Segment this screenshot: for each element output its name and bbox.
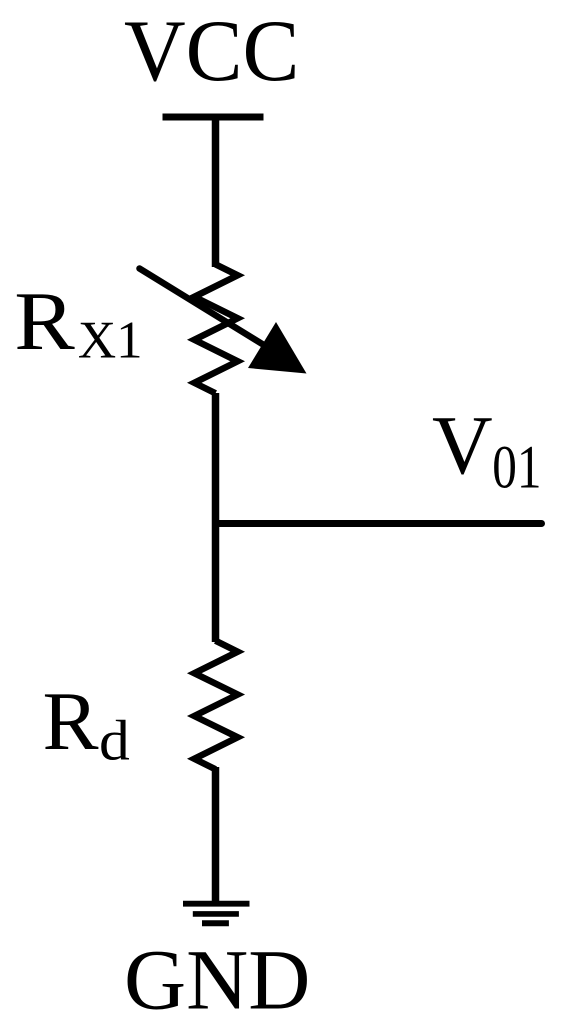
- label Rd: [43, 675, 130, 772]
- resistor Rd: [194, 641, 237, 770]
- wire: node to V01 output: [216, 520, 542, 527]
- label V01: [432, 399, 542, 501]
- wire: RX1 to node: [212, 393, 220, 524]
- power rail VCC: [163, 114, 264, 121]
- svg-text:R: R: [43, 675, 99, 768]
- svg-text:d: d: [99, 709, 130, 772]
- net label GND: [124, 932, 310, 1028]
- resistor RX1 (variable): [194, 264, 237, 393]
- wire: VCC rail to RX1: [212, 115, 220, 267]
- wire: node to Rd: [212, 524, 220, 643]
- label RX1: [14, 274, 142, 370]
- svg-text:R: R: [14, 274, 75, 367]
- svg-text:GND: GND: [124, 932, 310, 1028]
- svg-text:01: 01: [492, 433, 541, 500]
- ground: [183, 904, 250, 924]
- svg-text:V: V: [432, 399, 493, 492]
- svg-text:X1: X1: [78, 312, 143, 370]
- arrow of variable resistor RX1: [140, 269, 307, 374]
- net label VCC: [124, 3, 300, 100]
- wire: Rd to ground: [212, 767, 220, 904]
- svg-text:VCC: VCC: [124, 3, 300, 100]
